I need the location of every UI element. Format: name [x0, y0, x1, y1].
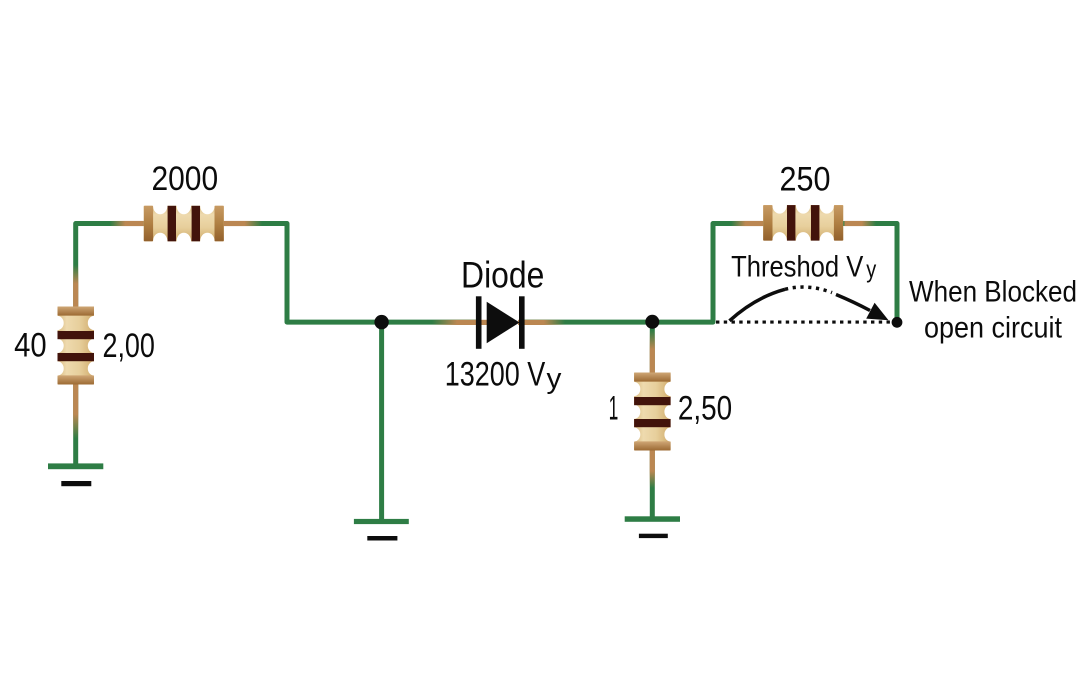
lead: diode D1 right [518, 320, 565, 325]
lead: R1 (2000) left [110, 221, 144, 226]
svg-text:40: 40 [14, 327, 47, 365]
lead: R4 (1/2,50) top [650, 330, 655, 373]
lead: R2 (40/2,00) top [73, 265, 78, 307]
resistor R3 (250) [763, 197, 843, 250]
dotted open-circuit line [716, 321, 890, 324]
ground GND1 black bar [61, 481, 91, 486]
diode D1 left bar [476, 296, 482, 349]
wire: bus from diode right through node B to right loop and down to open-circuit dot [520, 224, 897, 323]
open-circuit end dot [892, 317, 903, 328]
diode D1 triangle [487, 302, 520, 343]
svg-text:y: y [866, 256, 876, 283]
svg-text:2000: 2000 [152, 160, 219, 198]
lead: R1 (2000) right [223, 221, 262, 226]
wire: left branch (V1 loop: left vertical, top horizontal, drop to bus) [76, 224, 480, 467]
svg-text:y: y [547, 363, 562, 395]
ground GND1 (left) green bar [48, 463, 103, 469]
threshold arc: solid left segment [730, 289, 786, 321]
svg-text:When Blocked: When Blocked [909, 275, 1077, 308]
diode D1 right bar [519, 296, 525, 349]
threshold arc: dotted middle segment [785, 287, 832, 293]
resistor R2 (40 / 2,00) [51, 307, 100, 385]
junction node B dot [645, 315, 659, 329]
svg-text:13200 V: 13200 V [445, 356, 546, 394]
svg-text:2,00: 2,00 [102, 327, 155, 365]
svg-text:2,50: 2,50 [678, 389, 732, 427]
lead: R3 (250) left [731, 221, 763, 226]
wire: node B drop through R4 to ground [650, 322, 655, 519]
ground GND2 (middle) green bar [354, 519, 409, 524]
junction node A dot [374, 315, 388, 329]
lead: R4 (1/2,50) bottom [650, 450, 655, 488]
lead: diode D1 left [432, 320, 488, 325]
svg-text:Diode: Diode [461, 255, 544, 296]
svg-text:open circuit: open circuit [924, 311, 1063, 344]
lead: R3 (250) right [844, 221, 876, 226]
ground GND3 black bar [639, 534, 668, 538]
svg-text:250: 250 [780, 161, 831, 199]
threshold arc: solid right segment [836, 295, 870, 311]
wire: node A drop to ground [379, 322, 384, 521]
ground GND2 black bar [367, 536, 397, 541]
svg-text:Threshod V: Threshod V [731, 250, 863, 283]
ground GND3 (right) green bar [625, 516, 680, 522]
resistor R4 (1 / 2,50) [628, 373, 677, 451]
resistor R1 (2000) [144, 197, 224, 250]
svg-text:1: 1 [609, 389, 619, 427]
lead: R2 (40/2,00) bottom [73, 385, 78, 439]
threshold arrowhead [866, 303, 888, 321]
